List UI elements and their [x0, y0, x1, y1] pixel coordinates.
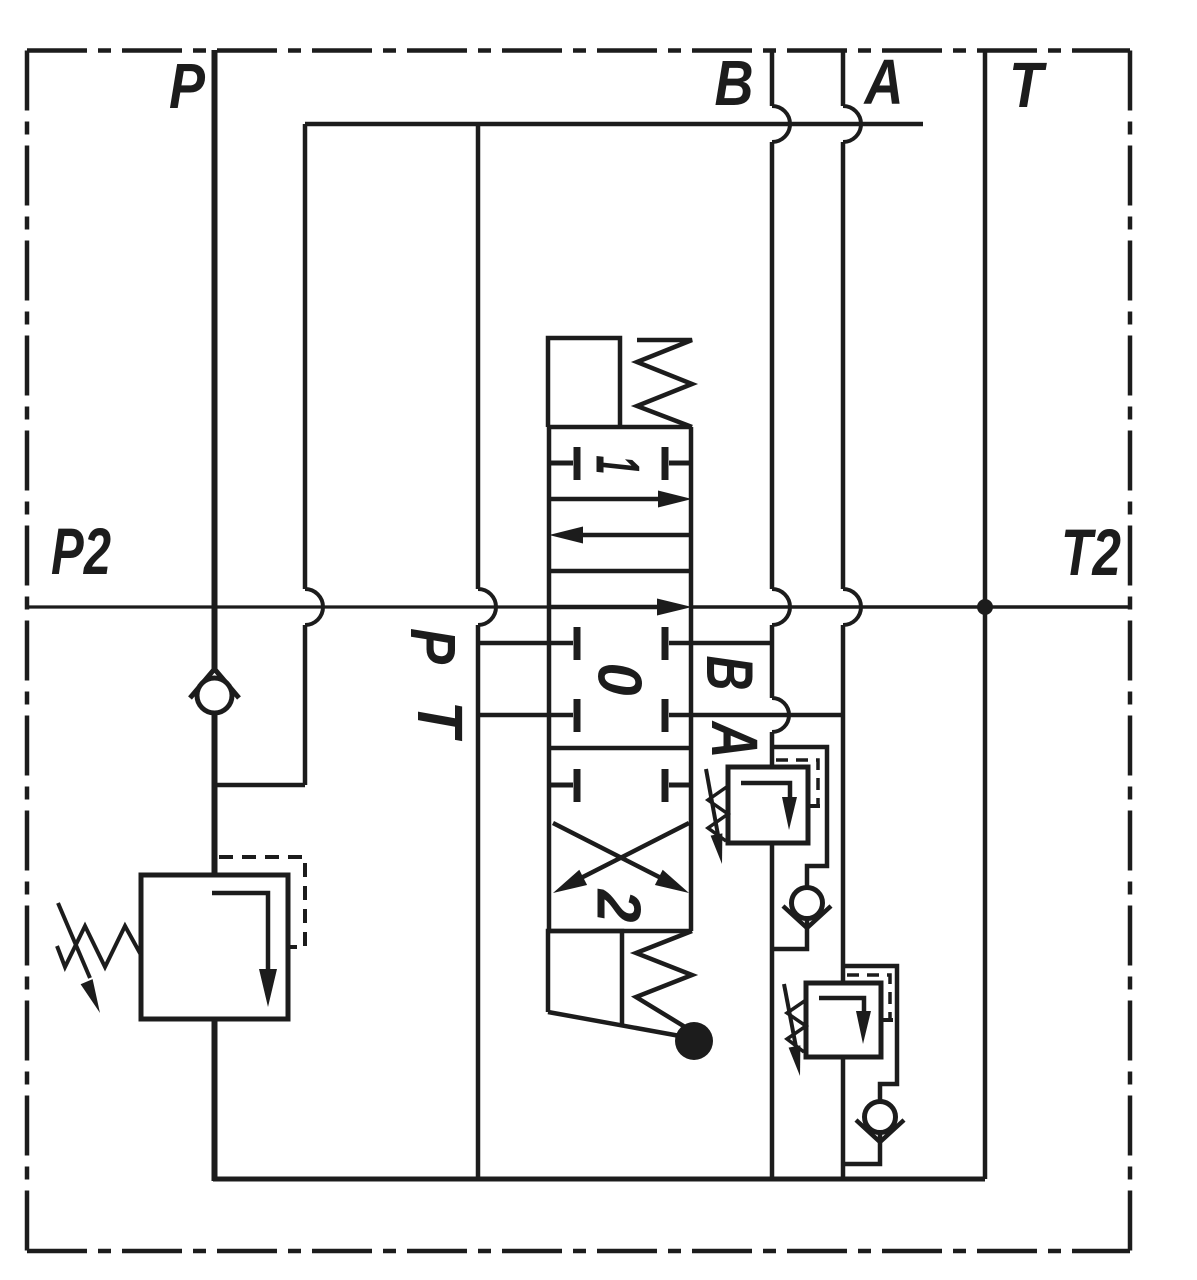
svg-text:B: B: [693, 656, 767, 691]
RV3 adjustment arrow: [784, 984, 796, 1047]
wire P vertical mid: [212, 712, 218, 875]
RV3 pilot dashed line: [847, 975, 890, 1018]
main relief valve RV1 body: [141, 875, 288, 1019]
check valve CV3 branch wire: [843, 966, 897, 1164]
RV2 pilot dashed line: [776, 760, 818, 806]
RV2 internal flow arrow: [741, 783, 790, 799]
lever knob ball: [675, 1022, 713, 1060]
RV2 adjustment arrow: [706, 769, 718, 835]
wire P vertical top: [212, 50, 218, 670]
wire B line: [770, 50, 775, 106]
svg-text:T: T: [404, 701, 476, 742]
valve top spring: [637, 340, 692, 427]
valve manual lever: [548, 1012, 680, 1036]
check valve CV3 seat: [856, 1120, 904, 1142]
svg-text:P2: P2: [51, 514, 111, 588]
box1 flow arrow left: [575, 533, 691, 538]
wire bottom drain line: [213, 1177, 985, 1182]
wire top pilot line y=124: [305, 122, 923, 127]
svg-text:T: T: [1009, 49, 1047, 121]
wire bypass connector: [213, 783, 305, 788]
svg-text:2: 2: [584, 889, 653, 923]
check valve CV3 ball: [865, 1102, 896, 1133]
check valve CV1 ball: [197, 678, 232, 713]
P2 arrow through valve: [549, 605, 663, 610]
check valve CV1 seat: [190, 669, 239, 698]
box1 flow arrow right: [549, 497, 666, 502]
valve bottom pilot box: [548, 931, 622, 1024]
wire A outlet: [841, 1057, 846, 1181]
RV1 spring: [57, 926, 141, 967]
relief valve RV2 body: [728, 767, 808, 843]
wire T-feed x=478: [476, 124, 481, 589]
box2 cross arrow 2: [577, 823, 689, 880]
svg-text:P: P: [169, 50, 205, 122]
wire B outlet: [770, 843, 775, 1181]
RV1 pilot dashed line: [219, 857, 305, 947]
check valve CV2 seat: [783, 906, 831, 928]
svg-text:1: 1: [583, 456, 652, 475]
RV2 spring: [708, 786, 728, 841]
wire T line: [983, 50, 988, 1179]
box2 blocked port bars: [549, 783, 573, 788]
svg-text:A: A: [698, 720, 772, 759]
RV1 adjustment arrow: [58, 903, 90, 978]
wire P outlet below RV1: [212, 1019, 218, 1181]
wire T2 line right: [691, 605, 1130, 608]
check valve CV2 branch wire: [772, 747, 827, 949]
RV3 spring: [787, 1000, 806, 1052]
RV3 internal flow arrow: [819, 998, 864, 1013]
svg-text:B: B: [715, 47, 754, 119]
main valve body outline: [547, 427, 552, 931]
wire bypass x=305: [303, 124, 308, 589]
svg-text:0: 0: [585, 663, 654, 696]
check valve CV2 ball: [792, 888, 823, 919]
RV1 internal flow arrow: [212, 893, 268, 972]
box0 blocked ports row y=643: [478, 641, 573, 646]
wire A line: [841, 50, 846, 106]
box2 cross arrow 1: [553, 823, 665, 880]
svg-text:T2: T2: [1061, 515, 1121, 589]
box0 blocked ports row y=715: [478, 713, 573, 718]
relief valve RV3 body: [806, 983, 881, 1057]
valve top pilot box: [548, 338, 620, 427]
svg-text:A: A: [863, 46, 904, 118]
box1 blocked port bars: [549, 461, 573, 466]
wire P2 line left: [27, 605, 549, 608]
node T junction: [977, 599, 993, 615]
valve bottom spring: [636, 931, 692, 1030]
svg-text:P: P: [397, 628, 469, 664]
